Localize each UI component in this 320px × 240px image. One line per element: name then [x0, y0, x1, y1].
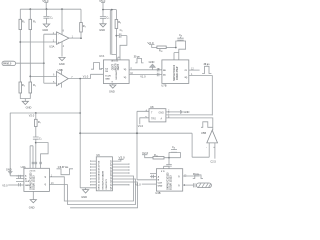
wire R7 top [35, 113, 37, 119]
svg-text:SN74LVC1G123: SN74LVC1G123 [166, 172, 169, 190]
node U8 bus cross [136, 132, 138, 134]
op-amp U3A [49, 30, 73, 49]
svg-text:REXT/: REXT/ [115, 63, 117, 70]
node x80 y113 [79, 112, 81, 114]
wire pin4 [61, 42, 63, 57]
pulse symbol 40ns [193, 173, 203, 178]
node divider left [19, 41, 21, 43]
wire U5 pin10 to U7B V1.0 [129, 74, 162, 76]
svg-text:V1.0: V1.0 [140, 74, 146, 78]
wire third bus [70, 182, 137, 208]
wire long V1.0 vertical [79, 79, 81, 188]
wire U6 gnd stub [80, 188, 96, 190]
svg-text:9 11: 9 11 [161, 171, 165, 173]
resistor R5 lower [29, 82, 36, 93]
pulse symbol 20us [202, 64, 211, 74]
resistor R3 pullup [80, 23, 86, 33]
wire feedback top [80, 9, 82, 22]
svg-text:14 15 13: 14 15 13 [111, 59, 118, 62]
power V5.0 (left) [42, 0, 49, 9]
pulse symbol (U3B out) [91, 63, 102, 70]
input port oval [2, 61, 16, 65]
svg-text:-: - [58, 75, 59, 78]
svg-text:R₁₀: R₁₀ [159, 48, 163, 52]
wire U8 right pin7 [166, 114, 212, 117]
capacitor marks U4A top pins [32, 162, 42, 163]
node R11/C9 [168, 157, 170, 159]
svg-text:2 3 5 6: 2 3 5 6 [30, 171, 36, 173]
transducer LS1 [193, 183, 211, 188]
svg-text:GND: GND [29, 205, 35, 209]
wire U6 left pins [91, 160, 97, 185]
wire U5B right input [214, 143, 216, 159]
svg-text:1Q: 1Q [124, 77, 127, 79]
svg-text:U4B: U4B [155, 191, 160, 195]
node R10/C8 [175, 47, 177, 49]
node output feedback [80, 37, 82, 39]
svg-text:GND: GND [105, 78, 110, 80]
wire mid cross y=113 [10, 112, 80, 114]
svg-text:GND: GND [149, 60, 155, 64]
capacitor marks pin4 [19, 183, 21, 186]
ground (sideways U8) [180, 110, 189, 114]
svg-text:V3.0: V3.0 [119, 155, 126, 159]
node R2 bottom [29, 76, 31, 78]
pulse symbol 25us [134, 57, 144, 63]
svg-text:R₁₁: R₁₁ [154, 153, 158, 157]
capacitor C5 [100, 10, 109, 24]
power V2.0 (U7B) [147, 41, 157, 48]
resistor R7 [35, 119, 41, 126]
wire U8 right pin2 [166, 111, 181, 113]
wire V1.0 to U4B [142, 183, 157, 185]
capacitor C9 [171, 145, 177, 152]
wire U3A output [69, 37, 81, 39]
svg-text:U5B: U5B [201, 131, 206, 135]
wire C8 loop [176, 41, 186, 60]
wire U4A pin13 loop [49, 179, 135, 205]
svg-text:GND: GND [25, 185, 30, 187]
svg-text:R₇: R₇ [38, 120, 41, 124]
svg-text:U6: U6 [96, 153, 100, 157]
svg-text:1Q: 1Q [124, 69, 127, 71]
wire U8 pin5 V1.0 [140, 118, 149, 124]
svg-text:C₇: C₇ [39, 137, 42, 141]
wire VCC drop to U5 [110, 10, 116, 55]
resistor R10 [157, 46, 166, 52]
svg-text:DCUR 3YEP: DCUR 3YEP [177, 66, 179, 80]
wire U4B top pin2 [164, 166, 169, 168]
svg-text:R₃: R₃ [83, 24, 86, 28]
op-amp U3B [53, 68, 73, 86]
node mid rail C5 [102, 9, 104, 11]
svg-text:GND: GND [81, 195, 87, 199]
svg-text:GND: GND [184, 110, 190, 114]
ground (U5) [109, 85, 116, 94]
svg-text:V1.0: V1.0 [135, 182, 141, 186]
wire U7B right pin1 [189, 76, 213, 116]
ground (C5) [99, 24, 106, 32]
IC U4B [155, 169, 182, 195]
capacitor marks U4B top [166, 158, 172, 169]
svg-text:R₁: R₁ [22, 19, 25, 23]
wire top rail y=9.2 [20, 8, 81, 10]
svg-text:GND: GND [158, 185, 163, 187]
svg-text:V3.0: V3.0 [2, 184, 8, 188]
svg-text:V1.0: V1.0 [138, 124, 144, 128]
wire R1 top [19, 9, 21, 19]
svg-text:Q0 Q1 Q2 Q3 Q4 Q5 Q6 Q7 LE: Q0 Q1 Q2 Q3 Q4 Q5 Q6 Q7 LE [109, 160, 112, 190]
svg-text:C₉: C₉ [172, 145, 175, 149]
node rail junction pin8 [61, 8, 63, 10]
capacitor C8 [177, 33, 183, 41]
node V1.0 branch [79, 78, 81, 80]
IC U6 [96, 153, 112, 191]
wire U5B left input [192, 133, 209, 157]
tick ends U6 right stubs [128, 163, 130, 185]
wire pin2 vertical [44, 34, 57, 83]
svg-text:GND: GND [109, 90, 115, 94]
wire U5 bottom pin [112, 84, 114, 86]
wire mid rail [103, 9, 116, 11]
node rail junction V5 [46, 8, 48, 10]
capacitor C6 [116, 28, 127, 38]
svg-text:C₅: C₅ [106, 16, 109, 20]
wire feedback bottom [80, 32, 82, 38]
wire U3B stub top [61, 70, 63, 75]
svg-text:U7A: U7A [99, 54, 104, 58]
svg-text:2Q: 2Q [185, 77, 188, 79]
wire U7B top pins [174, 53, 179, 60]
svg-text:U3B: U3B [58, 68, 63, 72]
ground (C1) [42, 24, 49, 32]
wire V3.0 to U4A [8, 184, 24, 186]
IC U7B [161, 60, 188, 88]
svg-text:CEXT: CEXT [118, 63, 120, 70]
wire R7 to C7 [35, 127, 37, 138]
op-amp U5B [201, 130, 218, 149]
node input/pin2 [43, 62, 45, 64]
ground (U4A bottom) [29, 200, 37, 210]
wire U4B right pin12 [183, 175, 200, 177]
svg-text:R₅: R₅ [33, 83, 36, 87]
capacitor marks U4B left [152, 175, 154, 178]
node R7 tap [35, 112, 37, 114]
svg-text:DCUR 1G123: DCUR 1G123 [171, 175, 173, 190]
svg-text:SN74LVC573ADW: SN74LVC573ADW [102, 170, 105, 189]
IC U4A [21, 165, 50, 192]
resistor R11 [153, 153, 164, 159]
pulse symbol t=0.47ms [57, 166, 74, 175]
svg-text:GND: GND [42, 28, 48, 32]
svg-text:CEXT: CEXT [113, 63, 115, 70]
wire U4A bottom pin [32, 191, 34, 199]
ground (U3A pin4) [59, 58, 65, 67]
wire U5 pin4 to U7B [129, 69, 162, 71]
svg-text:U4A: U4A [21, 165, 26, 169]
wire U4B right pin5 [183, 184, 194, 186]
svg-text:U7B: U7B [161, 84, 166, 88]
wire R6 top [115, 10, 117, 20]
svg-text:C2.5: C2.5 [210, 159, 216, 163]
capacitor C7 [33, 137, 42, 141]
svg-text:CLR: CLR [25, 181, 30, 183]
svg-text:-: - [206, 146, 207, 149]
pulse symbol (U5B) [201, 122, 213, 128]
power V5.0 (mid) [99, 0, 106, 10]
wire U5 top pin link [118, 57, 120, 60]
wire U5 left pin1 [101, 68, 104, 70]
svg-text:-: - [58, 33, 59, 36]
node rail junction R2 [29, 8, 31, 10]
svg-text:R₂: R₂ [33, 19, 36, 23]
svg-text:V2.0: V2.0 [29, 113, 35, 117]
svg-text:R₆: R₆ [118, 20, 121, 24]
ground (divider) [22, 101, 31, 109]
wire U7B right pin12 [189, 69, 200, 71]
wire R6 bottom [115, 29, 117, 60]
wire C6 to pin [120, 36, 127, 60]
svg-text:U8: U8 [150, 105, 154, 109]
svg-text:SN74LVC: SN74LVC [115, 69, 118, 79]
svg-text:GND: GND [26, 106, 32, 110]
node bus tap [79, 132, 81, 134]
wire R2 bottom [29, 30, 31, 83]
svg-text:GND: GND [59, 62, 65, 66]
wire U4A top pin pair [30, 146, 33, 169]
ground (on wire U5-U7B) [149, 60, 156, 70]
capacitor marks U7B left [157, 68, 159, 76]
power V3.0 (U6) [112, 155, 125, 161]
svg-text:C₁: C₁ [50, 16, 53, 20]
resistor R6 [115, 20, 121, 29]
svg-text:8: 8 [112, 82, 113, 84]
svg-text:CLR: CLR [158, 182, 163, 184]
node mid rail drop [111, 9, 113, 11]
node R6/C6 [116, 35, 118, 37]
IC U5 [99, 54, 129, 84]
svg-text:DCUR 1G123: DCUR 1G123 [34, 175, 36, 190]
capacitor C1 [43, 9, 52, 24]
wire R1 bottom to node [19, 30, 21, 83]
IC U8 [149, 105, 166, 122]
svg-text:D0 D1 D2 D3 D4 D5 D6 D7 OE: D0 D1 D2 D3 D4 D5 D6 D7 OE [98, 160, 101, 189]
svg-text:SN74LVC1G123: SN74LVC1G123 [30, 172, 33, 190]
wire U4B left pins [150, 174, 156, 177]
wire branch to pin [36, 143, 48, 169]
wire U4A pin1 loop [49, 176, 133, 201]
svg-text:U3A: U3A [49, 44, 54, 48]
wire U4A pin GND drop [10, 113, 24, 176]
wire C7 down [35, 139, 37, 168]
wire pin5 [44, 82, 57, 84]
resistor R2 [29, 19, 36, 29]
wire R11 to node [164, 157, 181, 159]
svg-text:GND: GND [159, 111, 165, 114]
wire pin6 [30, 75, 56, 77]
wire R10 to C8 node [166, 47, 176, 49]
svg-text:V1.0: V1.0 [83, 75, 89, 79]
wire U3B output [68, 74, 103, 78]
wire C9 loop [169, 152, 181, 157]
ground (U6) [81, 190, 89, 200]
svg-text:C₈: C₈ [179, 33, 182, 37]
wire U8 right pin6 [166, 118, 213, 130]
power V2.0 (U4B) [142, 151, 153, 158]
svg-text:R₄: R₄ [22, 83, 25, 87]
svg-text:TRG: TRG [151, 118, 156, 121]
svg-text:C₆: C₆ [120, 28, 123, 32]
wire input net [16, 62, 44, 64]
svg-text:V2.0: V2.0 [142, 151, 149, 155]
wire U6 right stubs [112, 164, 129, 185]
wire R2 top [29, 9, 31, 19]
wire R4/R5 join [20, 93, 30, 101]
wire U4A left pins [16, 176, 24, 182]
ground (U4A left) [6, 168, 13, 174]
capacitor marks pin1 [19, 175, 21, 178]
wire pin3 [20, 41, 56, 43]
svg-text:SN74LVC1G02: SN74LVC1G02 [173, 64, 176, 81]
svg-text:PA0/1.5: PA0/1.5 [3, 62, 12, 65]
wire pin8 [61, 9, 63, 34]
wire U3B stub bottom [61, 83, 63, 88]
svg-text:20 μs: 20 μs [204, 64, 211, 66]
svg-text:GND: GND [99, 28, 105, 32]
wire bus y=133.2 [80, 132, 192, 134]
svg-text:1CLR: 1CLR [105, 75, 111, 77]
resistor R1 [19, 19, 25, 29]
node C7 branch [35, 142, 37, 144]
resistor R4 lower left [19, 82, 25, 93]
wire U8 drop [137, 111, 156, 180]
svg-text:74LVC573: 74LVC573 [105, 179, 108, 190]
